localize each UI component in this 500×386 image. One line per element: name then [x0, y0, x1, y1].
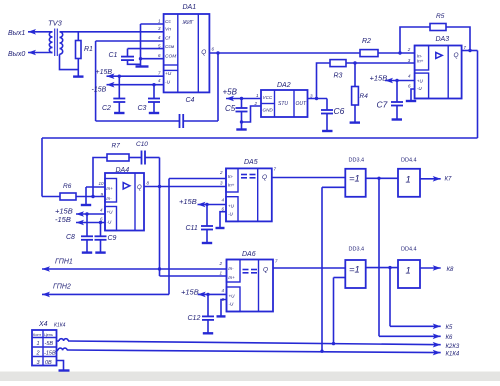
svg-text:DA6: DA6 — [242, 251, 256, 258]
svg-text:Cc: Cc — [165, 19, 171, 25]
svg-text:2: 2 — [219, 170, 223, 175]
svg-text:ГПН2: ГПН2 — [53, 284, 71, 291]
svg-text:R7: R7 — [112, 143, 121, 150]
svg-text:VCC: VCC — [263, 95, 273, 100]
svg-text:C12: C12 — [188, 315, 201, 322]
svg-text:Вых0: Вых0 — [8, 51, 25, 58]
svg-text:OUT: OUT — [296, 101, 308, 107]
svg-text:DA3: DA3 — [436, 36, 450, 43]
svg-text:Q: Q — [137, 185, 142, 191]
svg-text:In-: In- — [228, 266, 234, 271]
svg-text:In-: In- — [228, 174, 234, 179]
svg-text:-U: -U — [107, 220, 113, 225]
svg-text:GND: GND — [263, 108, 274, 113]
svg-text:2: 2 — [36, 351, 40, 357]
svg-text:STU: STU — [278, 101, 288, 107]
svg-text:C5: C5 — [225, 104, 236, 113]
svg-text:+U: +U — [417, 79, 424, 84]
svg-text:In+: In+ — [106, 186, 113, 191]
svg-text:DA5: DA5 — [244, 159, 258, 166]
svg-text:Q: Q — [454, 52, 459, 59]
svg-text:Cf: Cf — [165, 35, 170, 41]
svg-text:Q: Q — [201, 49, 206, 56]
svg-text:In+: In+ — [417, 59, 424, 64]
svg-text:Х4: Х4 — [38, 321, 48, 328]
svg-text:C7: C7 — [377, 100, 388, 110]
svg-text:+15В: +15В — [179, 197, 197, 206]
svg-text:=1: =1 — [349, 174, 360, 185]
svg-text:Q: Q — [263, 267, 268, 274]
svg-text:Конт: Конт — [33, 333, 41, 337]
svg-text:ЖИГ: ЖИГ — [182, 20, 195, 26]
svg-text:DA1: DA1 — [183, 4, 197, 11]
svg-text:C11: C11 — [186, 225, 198, 232]
svg-text:К1К4: К1К4 — [54, 323, 66, 329]
svg-text:-U: -U — [229, 302, 235, 307]
svg-text:Vп: Vп — [165, 27, 171, 33]
svg-text:R6: R6 — [63, 183, 72, 190]
svg-text:C9: C9 — [108, 235, 117, 242]
svg-text:1: 1 — [406, 266, 411, 277]
svg-text:C3: C3 — [138, 105, 147, 112]
svg-text:C2: C2 — [102, 105, 111, 112]
svg-text:2: 2 — [407, 47, 411, 52]
svg-text:+15В: +15В — [96, 69, 113, 76]
svg-text:+5В: +5В — [223, 88, 238, 97]
svg-text:К5: К5 — [446, 325, 454, 331]
svg-text:DA2: DA2 — [277, 82, 291, 89]
svg-text:+U: +U — [228, 204, 235, 209]
svg-text:К6: К6 — [446, 335, 454, 341]
svg-text:-U: -U — [228, 212, 234, 217]
svg-text:ГПН1: ГПН1 — [55, 259, 73, 266]
svg-text:+U: +U — [229, 294, 236, 299]
svg-text:In+: In+ — [228, 275, 235, 280]
svg-text:DD4.4: DD4.4 — [401, 247, 417, 253]
svg-text:Цепь: Цепь — [44, 333, 53, 337]
svg-text:+U: +U — [107, 210, 114, 215]
svg-text:10: 10 — [99, 181, 105, 186]
svg-text:-15В: -15В — [92, 87, 107, 94]
svg-text:DD4.4: DD4.4 — [401, 158, 417, 164]
svg-text:In-: In- — [106, 196, 112, 201]
svg-text:C6: C6 — [334, 106, 345, 116]
svg-text:Q: Q — [262, 174, 267, 181]
svg-text:К8: К8 — [447, 267, 455, 273]
svg-text:R3: R3 — [334, 73, 343, 80]
svg-text:C4: C4 — [186, 97, 195, 104]
svg-text:R2: R2 — [362, 38, 371, 45]
svg-text:DD3.4: DD3.4 — [349, 158, 365, 164]
svg-text:К7: К7 — [445, 177, 453, 183]
svg-text:In+: In+ — [228, 183, 235, 188]
svg-text:Вых1: Вых1 — [8, 30, 25, 37]
svg-text:-U: -U — [165, 80, 171, 86]
svg-text:-U: -U — [417, 86, 423, 91]
svg-text:Cсм: Cсм — [165, 44, 175, 50]
svg-text:=1: =1 — [349, 265, 360, 276]
svg-text:0В: 0В — [45, 360, 52, 366]
svg-text:COM: COM — [165, 54, 176, 60]
svg-text:К1К4: К1К4 — [446, 352, 460, 358]
svg-text:-15В: -15В — [55, 215, 71, 224]
svg-text:R5: R5 — [436, 13, 445, 20]
svg-text:+U: +U — [165, 71, 172, 77]
svg-text:1: 1 — [406, 175, 411, 186]
svg-text:R4: R4 — [360, 93, 369, 100]
svg-text:TV3: TV3 — [48, 19, 63, 28]
svg-text:DD3.4: DD3.4 — [349, 247, 365, 253]
svg-text:К2К3: К2К3 — [446, 344, 460, 350]
svg-text:C8: C8 — [66, 234, 75, 241]
svg-text:-5В: -5В — [45, 341, 54, 347]
svg-text:-15В: -15В — [44, 351, 56, 357]
svg-text:C1: C1 — [109, 52, 118, 59]
svg-text:+15В: +15В — [181, 287, 199, 296]
svg-text:+15В: +15В — [370, 74, 388, 83]
svg-text:1: 1 — [37, 341, 40, 347]
svg-text:2: 2 — [219, 261, 223, 266]
svg-text:C10: C10 — [136, 141, 148, 148]
svg-text:R1: R1 — [84, 46, 93, 53]
